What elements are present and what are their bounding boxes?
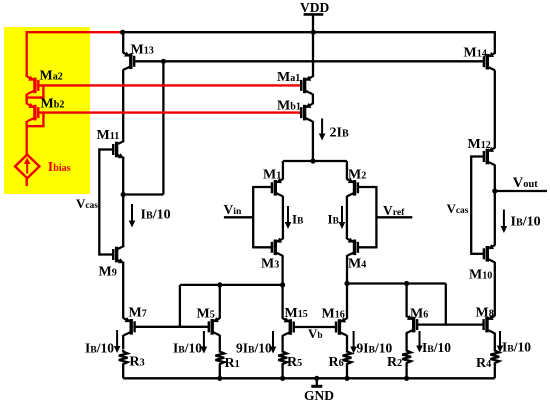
svg-text:IB/10: IB/10 [141, 208, 171, 223]
node R1 ground junction [217, 376, 222, 381]
wire Vout output [495, 190, 547, 192]
svg-text:Vcas: Vcas [447, 201, 469, 216]
wire M14 source to M12 drain [494, 70, 496, 148]
wire node to M9 drain [122, 193, 124, 246]
wire red Ma2 source to Mb2 drain [26, 94, 28, 105]
wire red Mb2 diode loop [27, 113, 44, 127]
svg-text:M13: M13 [131, 43, 154, 58]
transistor M11 [113, 141, 124, 158]
svg-text:IB/10: IB/10 [511, 214, 541, 229]
resistor R1 [215, 350, 224, 379]
wire M15-M16 Vb gate line [294, 326, 337, 328]
wire VDD stem [312, 14, 314, 77]
wire M2 drain to M4 drain [346, 196, 348, 239]
svg-text:R4: R4 [476, 356, 491, 371]
svg-text:M4: M4 [348, 257, 366, 272]
wire M4 gate lead [358, 246, 376, 248]
svg-text:IB: IB [292, 212, 303, 227]
wire cascode gate drop [162, 61, 164, 194]
svg-text:IB: IB [328, 212, 339, 227]
wire M12 source to Vout node [494, 165, 496, 192]
wire M15 drain drop [281, 285, 283, 319]
wire tail node rail [283, 160, 347, 162]
wire Vcas right (M12 gate to M10 gate) [470, 155, 472, 255]
transistor M12 [484, 147, 495, 165]
transistor M6 [406, 315, 417, 333]
node tail 2IB junction [310, 158, 315, 163]
wire M5 drain drop [219, 285, 221, 319]
wire top VDD rail (black part) [122, 31, 495, 33]
wire M7 source to R3 [122, 335, 124, 349]
wire M1-M3 gate column [252, 186, 254, 248]
node M11 source junction [121, 192, 126, 197]
wire M13-M14 gate rail [134, 60, 484, 62]
wire M6-M8 gate bias drop [445, 284, 447, 326]
wire Vout node to M10 drain [494, 190, 496, 246]
wire M1 source drop [282, 161, 284, 180]
transistor M14 [484, 52, 495, 70]
transistor M7 [124, 317, 135, 335]
svg-text:Ibias: Ibias [48, 160, 71, 175]
current arrow IB/10 at M9 [129, 204, 136, 228]
current arrow 2IB [319, 119, 326, 141]
svg-text:M9: M9 [99, 265, 117, 280]
wire red Ma2 gate to Ma1 gate [38, 84, 302, 86]
wire red Mb2 gate to Mb1 gate [38, 111, 302, 113]
wire Ma1 source to Mb1 drain [312, 94, 314, 105]
wire M1 gate lead [253, 186, 272, 188]
svg-text:R3: R3 [130, 355, 145, 370]
current arrow 9IB/10 at R5 [270, 331, 277, 354]
svg-text:R2: R2 [387, 355, 402, 370]
wire right column M14 source drop [494, 31, 496, 54]
transistor M8 [484, 315, 495, 333]
svg-text:9IB/10: 9IB/10 [357, 341, 393, 356]
wire M9 source to M7 drain [122, 263, 124, 319]
transistor Mb1 [301, 103, 312, 121]
svg-text:M1: M1 [263, 168, 281, 183]
wire bottom ground rail [123, 377, 495, 379]
transistor M3 [272, 238, 283, 256]
wire M16 drain drop [346, 284, 348, 319]
yellow highlight box [4, 27, 90, 194]
svg-text:IB/10: IB/10 [422, 340, 451, 355]
wire red Mb2 source to Ibias [26, 121, 28, 155]
node Vout junction [492, 188, 497, 193]
svg-text:M2: M2 [348, 168, 366, 183]
svg-text:Vin: Vin [224, 202, 242, 217]
current arrow IB/10 at R1 [201, 331, 208, 354]
transistor M1 [272, 178, 283, 196]
wire Vin input [224, 216, 253, 218]
wire Vref input [376, 216, 412, 218]
svg-text:2IB: 2IB [330, 126, 349, 141]
resistor R2 [402, 349, 411, 379]
wire M2 source drop [346, 161, 348, 180]
wire M6 drain drop [405, 284, 407, 317]
current arrow 9IB/10 at R6 [350, 331, 357, 354]
node R5 ground junction [280, 376, 285, 381]
node R6 ground junction [344, 376, 349, 381]
wire M6-M8 gate line [417, 323, 483, 325]
wire M13 source to M11 drain [122, 70, 124, 142]
wire red Ma2 diode loop [27, 85, 44, 97]
svg-text:Vref: Vref [383, 203, 405, 218]
svg-text:M5: M5 [197, 307, 215, 322]
svg-text:IB/10: IB/10 [173, 341, 202, 356]
wire Vcas left (M11 gate to M9 gate) [98, 148, 100, 255]
svg-text:M14: M14 [464, 46, 487, 61]
wire M7-M5 gate line [135, 326, 209, 328]
svg-text:R1: R1 [225, 356, 240, 371]
svg-text:Ma1: Ma1 [277, 70, 300, 85]
svg-text:M15: M15 [285, 306, 308, 321]
svg-text:M11: M11 [97, 128, 120, 143]
svg-text:M12: M12 [468, 137, 491, 152]
wire M15 source to R5 [281, 335, 283, 349]
transistor M10 [484, 244, 495, 262]
wire red Ibias bottom stub [26, 178, 28, 186]
node R2 ground junction [404, 376, 409, 381]
svg-text:Vout: Vout [513, 175, 538, 191]
resistor R6 [343, 350, 352, 379]
transistor Mb2 [27, 103, 38, 121]
wire M1 drain to M3 drain [282, 196, 284, 239]
svg-text:GND: GND [304, 388, 334, 403]
node M3/M15 junction [280, 282, 285, 287]
current source Ibias [15, 155, 39, 179]
ground [311, 378, 322, 386]
svg-text:Vcas: Vcas [76, 196, 98, 211]
svg-text:M7: M7 [129, 306, 147, 321]
transistor Ma1 [301, 76, 312, 94]
node GND stem junction [314, 376, 319, 381]
VDD supply bar [304, 13, 324, 16]
svg-text:M8: M8 [476, 306, 494, 321]
wire red bias top rail [27, 31, 123, 33]
wire M16 source to R6 [346, 335, 348, 349]
wire mirror rail right (y=283.5) [347, 282, 446, 284]
node M5 drain junction [217, 282, 222, 287]
current arrow IB right branch [339, 206, 346, 229]
wire M11 gate lead [99, 148, 113, 150]
transistor M13 [123, 52, 134, 70]
wire M3 gate lead [253, 246, 272, 248]
transistor M16 [336, 317, 347, 335]
transistor M4 [347, 238, 358, 256]
current arrow IB left branch [285, 206, 292, 229]
wire M10 gate lead [471, 253, 484, 255]
svg-text:M16: M16 [322, 307, 345, 322]
transistor M9 [113, 246, 124, 263]
wire M6 source to R2 [405, 333, 407, 349]
svg-text:Ma2: Ma2 [40, 69, 63, 84]
wire gate-line riser to mirror rail [179, 285, 181, 328]
node cascode gate rail junction [161, 59, 166, 64]
svg-text:Mb2: Mb2 [41, 97, 65, 112]
transistor M2 [347, 178, 358, 196]
node M6 drain junction [404, 281, 409, 286]
transistor Ma2 [27, 76, 38, 94]
resistor R3 [119, 350, 128, 379]
svg-text:9IB/10: 9IB/10 [236, 341, 272, 356]
wire M11 source down to node [122, 158, 124, 196]
wire M2-M4 gate column [375, 186, 377, 248]
node M4/M16 junction [344, 281, 349, 286]
wire M8 source to R4 [494, 333, 496, 349]
wire left column M13 drain [122, 32, 124, 53]
current arrow IB/10 at R3 [114, 330, 121, 353]
wire M5 source to R1 [219, 335, 221, 350]
svg-text:Mb1: Mb1 [277, 99, 301, 114]
svg-text:M10: M10 [469, 268, 492, 283]
wire horizontal at M11 source node [123, 193, 163, 195]
resistor R5 [278, 350, 287, 379]
svg-text:IB/10: IB/10 [85, 341, 114, 356]
wire M12 gate lead [471, 155, 484, 157]
wire M4 source to mirror node [346, 255, 348, 284]
svg-text:Vb: Vb [308, 326, 323, 341]
wire M3 source to mirror node [281, 255, 283, 286]
current arrow IB/10 at R2 [416, 331, 423, 353]
wire M2 gate lead [358, 186, 376, 188]
wire M10 source to M8 drain [494, 262, 496, 316]
node VDD stem junction [311, 30, 316, 35]
transistor M5 [209, 317, 220, 335]
svg-text:M6: M6 [410, 307, 428, 322]
svg-text:R6: R6 [329, 355, 344, 370]
node VDD rail / bias junction [120, 30, 125, 35]
svg-text:IB/10: IB/10 [502, 340, 531, 355]
current arrow IB/10 at R4 [497, 331, 504, 353]
wire Mb1 source to tail node [312, 121, 314, 161]
wire red Ma2 drain drop [26, 31, 28, 77]
transistor M15 [283, 317, 294, 335]
resistor R4 [490, 349, 499, 379]
svg-text:M3: M3 [261, 257, 279, 272]
wire mirror rail left (y=285) [180, 284, 283, 286]
wire M9 gate lead [99, 253, 113, 255]
current arrow IB/10 at M10 [501, 210, 508, 234]
svg-text:R5: R5 [287, 355, 302, 370]
svg-text:VDD: VDD [300, 0, 329, 15]
